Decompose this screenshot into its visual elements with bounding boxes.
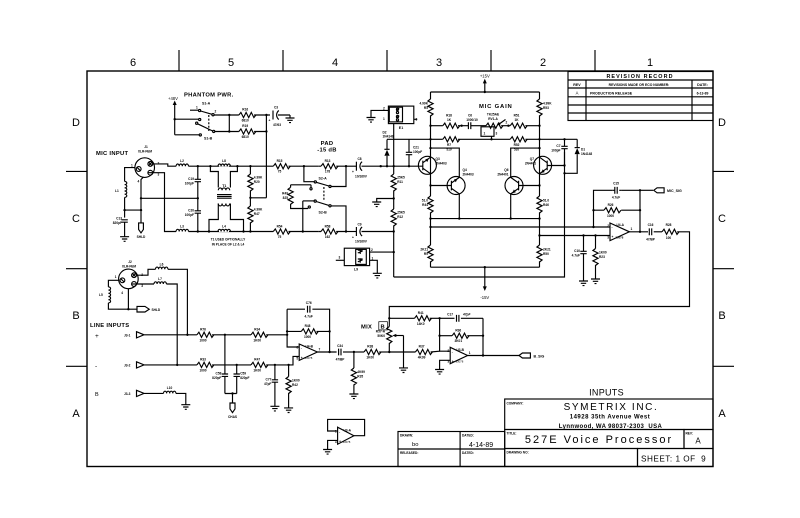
wire line+ bbox=[152, 334, 197, 336]
suppressor L9 bbox=[344, 248, 369, 265]
op-amp U3-A bbox=[338, 427, 354, 444]
svg-text:A: A bbox=[576, 91, 579, 96]
svg-text:47pF: 47pF bbox=[462, 313, 471, 317]
diode D1 1N4148 bbox=[576, 139, 578, 147]
svg-text:4.7uF: 4.7uF bbox=[305, 315, 313, 319]
svg-text:E1: E1 bbox=[399, 126, 403, 130]
resistor R7 bbox=[443, 137, 460, 142]
resistor R37 bbox=[389, 351, 415, 353]
svg-text:U4-B: U4-B bbox=[306, 345, 314, 349]
ground tap between R11/R12 bbox=[377, 199, 394, 203]
svg-text:1: 1 bbox=[115, 275, 117, 279]
svg-text:1N4148: 1N4148 bbox=[581, 152, 592, 156]
svg-text:D: D bbox=[72, 117, 80, 129]
zone tick top 3/2 bbox=[490, 50, 492, 71]
-15V supply arrow bbox=[484, 267, 486, 286]
svg-text:A: A bbox=[72, 408, 80, 420]
svg-text:+: + bbox=[301, 356, 303, 360]
svg-text:SHLD: SHLD bbox=[137, 235, 146, 239]
svg-text:6810: 6810 bbox=[242, 119, 249, 123]
wire pin2 to L2 bbox=[153, 164, 176, 166]
svg-text:6: 6 bbox=[296, 346, 298, 350]
svg-text:2: 2 bbox=[447, 349, 449, 353]
ground for C3 bbox=[286, 118, 295, 123]
wiper arrow bbox=[395, 335, 404, 337]
svg-text:R41: R41 bbox=[418, 311, 424, 315]
svg-text:2K21: 2K21 bbox=[420, 248, 428, 252]
svg-text:R34: R34 bbox=[254, 328, 260, 332]
U3-A spare section bbox=[323, 419, 365, 454]
svg-text:100: 100 bbox=[666, 236, 672, 240]
resistor R46 bbox=[537, 196, 542, 213]
svg-text:C76: C76 bbox=[306, 301, 312, 305]
wire to U4-A minus bbox=[431, 226, 611, 228]
svg-text:+48V: +48V bbox=[168, 96, 178, 101]
flag SHLD bbox=[137, 306, 149, 312]
shell wire bbox=[128, 289, 137, 310]
svg-text:U4-A: U4-A bbox=[617, 223, 625, 227]
svg-text:C19: C19 bbox=[188, 177, 194, 181]
op-amp U3-B bbox=[450, 347, 467, 363]
svg-text:1K: 1K bbox=[514, 118, 519, 122]
svg-text:33078: 33078 bbox=[305, 356, 313, 360]
svg-text:S1-A: S1-A bbox=[202, 102, 211, 106]
svg-text:SYMETRIX INC.: SYMETRIX INC. bbox=[564, 402, 659, 413]
svg-text:10/160V: 10/160V bbox=[355, 174, 368, 178]
svg-text:33078: 33078 bbox=[616, 236, 624, 240]
svg-text:REV: REV bbox=[573, 83, 581, 87]
svg-text:3: 3 bbox=[339, 256, 341, 260]
ground for C77 bbox=[270, 406, 279, 411]
svg-text:T1 USED OPTIONALLY: T1 USED OPTIONALLY bbox=[211, 238, 246, 242]
svg-text:4.99K: 4.99K bbox=[254, 176, 263, 180]
feedback right leg bbox=[482, 318, 484, 355]
svg-text:+: + bbox=[452, 359, 454, 363]
resistor R51 bbox=[510, 123, 527, 128]
svg-text:1K00: 1K00 bbox=[366, 356, 374, 360]
wire S1-A to R16 bbox=[214, 114, 239, 116]
svg-text:820pF: 820pF bbox=[113, 221, 122, 225]
wire line- bbox=[152, 364, 197, 366]
svg-text:100pF: 100pF bbox=[185, 213, 194, 217]
resistor R44 bbox=[428, 196, 433, 213]
svg-text:R23: R23 bbox=[599, 255, 605, 259]
svg-text:1: 1 bbox=[131, 164, 133, 168]
svg-text:R49: R49 bbox=[282, 192, 288, 196]
svg-text:IN PLACE OF L2 & L4: IN PLACE OF L2 & L4 bbox=[212, 242, 245, 246]
svg-text:R37: R37 bbox=[419, 345, 425, 349]
resistor R18 bbox=[443, 123, 460, 128]
svg-text:1K00: 1K00 bbox=[253, 368, 261, 372]
svg-text:DRAWING NO:: DRAWING NO: bbox=[507, 451, 529, 455]
resistor R20 bbox=[249, 166, 251, 174]
svg-text:COMPANY:: COMPANY: bbox=[507, 402, 524, 406]
resistor R54 bbox=[273, 229, 290, 234]
svg-text:DRAWN:: DRAWN: bbox=[400, 434, 413, 438]
plus to ground bbox=[328, 440, 338, 449]
svg-text:14928 35th Avenue West: 14928 35th Avenue West bbox=[570, 415, 650, 421]
wire E1 to bus bbox=[394, 119, 417, 166]
svg-text:R51: R51 bbox=[514, 114, 520, 118]
svg-text:L1: L1 bbox=[115, 189, 119, 193]
resistor R11 bbox=[393, 166, 395, 174]
ground for C10 bbox=[579, 281, 588, 286]
svg-text:1N4148: 1N4148 bbox=[383, 135, 394, 139]
svg-text:4K99: 4K99 bbox=[418, 356, 426, 360]
transistor Q6 2N4401 bbox=[519, 185, 540, 187]
svg-text:B_SIG: B_SIG bbox=[534, 354, 545, 358]
svg-text:-: - bbox=[612, 226, 613, 230]
svg-text:C13: C13 bbox=[116, 217, 122, 221]
resistor R41 bbox=[389, 317, 414, 319]
ground for E1 bbox=[371, 110, 388, 117]
flag MIC_SIG bbox=[640, 189, 653, 191]
svg-text:1: 1 bbox=[647, 57, 653, 69]
svg-text:bo: bo bbox=[412, 442, 418, 448]
svg-text:4-14-89: 4-14-89 bbox=[469, 442, 493, 449]
svg-text:1: 1 bbox=[631, 227, 633, 231]
svg-text:1000: 1000 bbox=[607, 214, 614, 218]
trimmer R57-A bbox=[388, 317, 390, 319]
zone tick right C/B bbox=[713, 268, 734, 270]
svg-text:4: 4 bbox=[138, 180, 140, 184]
capacitor C20 bbox=[197, 198, 199, 231]
switch S2-A bypass bbox=[304, 166, 314, 182]
svg-text:4.7uF: 4.7uF bbox=[572, 254, 580, 258]
svg-text:3K01: 3K01 bbox=[454, 339, 462, 343]
PAD section bbox=[282, 141, 394, 244]
svg-text:2N4401: 2N4401 bbox=[497, 173, 508, 177]
svg-text:47/63: 47/63 bbox=[273, 123, 281, 127]
gain row B bbox=[429, 138, 431, 140]
svg-text:10/160V: 10/160V bbox=[355, 240, 368, 244]
svg-text:C77: C77 bbox=[266, 378, 272, 382]
svg-text:B: B bbox=[95, 392, 99, 398]
svg-text:L5: L5 bbox=[99, 293, 103, 297]
svg-text:TK25AE: TK25AE bbox=[487, 113, 499, 117]
plus input to ground bbox=[440, 360, 451, 369]
svg-text:1K00: 1K00 bbox=[292, 379, 300, 383]
resistor R50 bbox=[537, 245, 542, 262]
svg-text:R42: R42 bbox=[292, 383, 298, 387]
svg-text:25K5: 25K5 bbox=[397, 211, 405, 215]
svg-text:B: B bbox=[72, 310, 79, 322]
svg-text:1000: 1000 bbox=[304, 335, 311, 339]
svg-text:R35: R35 bbox=[357, 375, 363, 379]
resistor R12 bbox=[391, 209, 396, 226]
svg-text:INPUTS: INPUTS bbox=[589, 388, 624, 398]
svg-text:MIC_SIG: MIC_SIG bbox=[667, 189, 682, 193]
resistor R53 bbox=[537, 99, 542, 116]
svg-text:2: 2 bbox=[607, 224, 609, 228]
svg-text:-15 dB: -15 dB bbox=[317, 148, 337, 154]
svg-text:L2: L2 bbox=[180, 159, 184, 163]
output wire bbox=[468, 355, 519, 357]
svg-text:Q6: Q6 bbox=[504, 168, 508, 172]
svg-text:R13: R13 bbox=[325, 159, 331, 163]
capacitor C76 bbox=[308, 306, 310, 313]
svg-text:162: 162 bbox=[325, 235, 331, 239]
mechanical link dashed bbox=[208, 115, 210, 131]
svg-text:C58: C58 bbox=[216, 372, 222, 376]
svg-text:R52: R52 bbox=[514, 143, 520, 147]
svg-text:+: + bbox=[612, 235, 614, 239]
resistor R13 bbox=[321, 164, 338, 169]
resistor R28 bbox=[662, 229, 679, 234]
svg-text:S2-A: S2-A bbox=[319, 177, 328, 181]
svg-text:D: D bbox=[718, 117, 726, 129]
node phantom feed bbox=[174, 118, 176, 120]
wire mic+ bus to Q3 base bbox=[381, 165, 420, 167]
svg-text:4.99K: 4.99K bbox=[419, 102, 428, 106]
svg-text:C59: C59 bbox=[240, 372, 246, 376]
svg-text:+: + bbox=[339, 440, 341, 444]
svg-text:R16: R16 bbox=[242, 108, 248, 112]
capacitor C19 bbox=[197, 166, 199, 198]
wire right leg bbox=[539, 92, 541, 267]
svg-text:CHAS: CHAS bbox=[228, 415, 237, 419]
svg-text:100pF: 100pF bbox=[413, 150, 422, 154]
wire bottom rail bbox=[431, 266, 540, 268]
ground for R35 bbox=[349, 394, 358, 399]
svg-text:PAD: PAD bbox=[321, 141, 334, 147]
svg-text:2N4403: 2N4403 bbox=[436, 162, 447, 166]
svg-text:A: A bbox=[718, 408, 726, 420]
resistor R33 bbox=[197, 362, 214, 367]
svg-text:J2: J2 bbox=[128, 260, 132, 264]
U4-B line amp bbox=[286, 301, 391, 399]
svg-text:TITLE:: TITLE: bbox=[507, 432, 517, 436]
wire mic- to L9 bbox=[393, 232, 395, 278]
svg-text:Q3: Q3 bbox=[436, 157, 440, 161]
resistor R26 bbox=[604, 208, 621, 213]
svg-text:100pF: 100pF bbox=[185, 182, 194, 186]
trimmer RV1-A bbox=[486, 123, 503, 128]
wire mic- return line bbox=[394, 152, 565, 277]
svg-text:XLR-FEM: XLR-FEM bbox=[138, 150, 153, 154]
svg-text:1000: 1000 bbox=[199, 368, 206, 372]
switch S1-B bbox=[196, 122, 198, 124]
transistor Q7 2N4401 bbox=[547, 165, 564, 167]
svg-text:+15V: +15V bbox=[480, 74, 490, 79]
svg-text:-: - bbox=[339, 430, 340, 434]
inductor L4 bbox=[219, 226, 229, 232]
svg-text:2N4403: 2N4403 bbox=[463, 173, 474, 177]
zone tick left D/C bbox=[66, 170, 87, 172]
svg-text:C: C bbox=[72, 213, 80, 225]
svg-text:5: 5 bbox=[228, 57, 234, 69]
jumper E1 bbox=[388, 106, 413, 124]
svg-text:L9: L9 bbox=[354, 268, 358, 272]
op-amp U4-A bbox=[610, 223, 629, 241]
node minus chain bbox=[440, 318, 451, 351]
transformer T1 bbox=[210, 166, 237, 187]
zone tick top 6/5 bbox=[178, 50, 180, 71]
gain row A bbox=[429, 125, 431, 127]
revision record table bbox=[568, 72, 713, 121]
svg-text:S2-B: S2-B bbox=[319, 211, 328, 215]
svg-text:-: - bbox=[452, 350, 453, 354]
wiper to ground bbox=[403, 336, 405, 368]
wire pin2 to L6 bbox=[136, 269, 155, 275]
inductor L3 bbox=[176, 229, 188, 231]
bus row B to D2/C21 left bbox=[387, 138, 431, 140]
wire mic- line bbox=[189, 231, 274, 233]
svg-text:1K00: 1K00 bbox=[599, 251, 607, 255]
svg-text:J3-2: J3-2 bbox=[124, 364, 131, 368]
svg-text:MIC INPUT: MIC INPUT bbox=[96, 151, 128, 157]
svg-text:L6: L6 bbox=[160, 262, 164, 266]
svg-text:33078: 33078 bbox=[456, 359, 464, 363]
svg-text:R20: R20 bbox=[254, 180, 260, 184]
svg-text:4: 4 bbox=[332, 57, 338, 69]
wire chassis tie bbox=[225, 394, 237, 404]
svg-text:-: - bbox=[95, 363, 97, 370]
ground for R23 bbox=[591, 279, 600, 284]
MIC GAIN section bbox=[387, 74, 610, 301]
svg-text:Q4: Q4 bbox=[463, 168, 467, 172]
svg-text:D1: D1 bbox=[581, 148, 585, 152]
bus row B to C7/D1 right bbox=[540, 138, 578, 140]
resistor R42 bbox=[288, 365, 290, 377]
svg-text:R36: R36 bbox=[455, 328, 461, 332]
svg-text:1000/10: 1000/10 bbox=[466, 118, 478, 122]
svg-text:75: 75 bbox=[278, 170, 282, 174]
svg-text:R53: R53 bbox=[543, 106, 549, 110]
svg-text:527E Voice Processor: 527E Voice Processor bbox=[525, 434, 673, 446]
wire to U4-A plus bbox=[540, 235, 611, 237]
svg-text:R33: R33 bbox=[200, 358, 206, 362]
svg-text:R50: R50 bbox=[543, 252, 549, 256]
svg-text:DATE:: DATE: bbox=[697, 83, 708, 87]
svg-text:R28: R28 bbox=[666, 223, 672, 227]
capacitor C59 bbox=[236, 365, 238, 394]
svg-text:XLR-FEM: XLR-FEM bbox=[122, 265, 137, 269]
svg-text:-15V: -15V bbox=[480, 295, 489, 300]
border frame bbox=[87, 71, 713, 467]
svg-text:C21: C21 bbox=[413, 146, 419, 150]
svg-text:U3-B: U3-B bbox=[457, 348, 465, 352]
svg-text:L8: L8 bbox=[222, 159, 226, 163]
capacitor C17 bbox=[440, 317, 455, 319]
svg-text:1K00: 1K00 bbox=[253, 338, 261, 342]
U3-B mix amp bbox=[389, 313, 544, 375]
transistor Q4 2N4403 bbox=[431, 185, 452, 187]
svg-text:820pF: 820pF bbox=[212, 376, 221, 380]
switch S2-B bypass bbox=[303, 200, 314, 202]
svg-text:R12: R12 bbox=[397, 215, 403, 219]
svg-text:L7: L7 bbox=[158, 277, 162, 281]
svg-text:C: C bbox=[718, 213, 726, 225]
LINE INPUTS section bbox=[90, 260, 300, 419]
zone tick left B/A bbox=[66, 365, 87, 367]
svg-text:MIC GAIN: MIC GAIN bbox=[479, 104, 513, 110]
svg-text:1: 1 bbox=[196, 106, 198, 110]
svg-text:REV:: REV: bbox=[686, 432, 693, 436]
resistor R9 bbox=[428, 245, 433, 262]
zone tick top 2/1 bbox=[594, 50, 596, 71]
svg-text:7: 7 bbox=[319, 347, 321, 351]
svg-text:178: 178 bbox=[325, 170, 331, 174]
resistor R47 bbox=[248, 206, 253, 223]
inductor L2 bbox=[176, 164, 188, 166]
wire mic sig to mix bbox=[389, 232, 689, 318]
svg-text:R47: R47 bbox=[254, 212, 260, 216]
input protection / bias bus bbox=[336, 106, 565, 278]
svg-text:2N4401: 2N4401 bbox=[525, 162, 536, 166]
flag SHLD bbox=[139, 223, 144, 233]
svg-text:C7: C7 bbox=[556, 144, 560, 148]
svg-text:C16: C16 bbox=[648, 223, 654, 227]
svg-text:R44: R44 bbox=[422, 203, 428, 207]
phantom feed joins divider bbox=[250, 197, 266, 199]
wire left leg bbox=[430, 92, 432, 267]
svg-text:R57-A: R57-A bbox=[376, 330, 386, 334]
svg-text:REVISION RECORD: REVISION RECORD bbox=[606, 74, 673, 80]
svg-text:LINE INPUTS: LINE INPUTS bbox=[90, 323, 129, 329]
svg-text:Lynnwood, WA 98037-2303 USA: Lynnwood, WA 98037-2303 USA bbox=[559, 424, 663, 430]
svg-text:33078: 33078 bbox=[343, 440, 351, 444]
resistor R47b bbox=[251, 362, 268, 367]
svg-text:U3-A: U3-A bbox=[344, 428, 352, 432]
svg-text:R9: R9 bbox=[424, 252, 428, 256]
MIX B trimmer bbox=[361, 311, 441, 373]
feedback wires bbox=[287, 309, 330, 352]
svg-text:3: 3 bbox=[607, 235, 609, 239]
svg-text:1: 1 bbox=[383, 117, 385, 121]
resistor R19 bbox=[239, 129, 256, 134]
resistor R49 bbox=[291, 185, 311, 188]
resistor R38 bbox=[354, 351, 364, 353]
capacitor C15 bbox=[615, 187, 617, 194]
wire pin3 to L7 bbox=[136, 283, 154, 285]
svg-text:100pF: 100pF bbox=[551, 149, 560, 153]
svg-text:R46: R46 bbox=[543, 203, 549, 207]
svg-text:47/BP: 47/BP bbox=[336, 358, 346, 362]
resistor R16 bbox=[239, 112, 256, 117]
svg-text:25K5: 25K5 bbox=[397, 176, 405, 180]
inductor L7 bbox=[154, 282, 166, 284]
svg-text:1000: 1000 bbox=[199, 338, 206, 342]
zone tick top 5/4 bbox=[282, 50, 284, 71]
svg-text:R54: R54 bbox=[277, 224, 283, 228]
svg-text:R48: R48 bbox=[305, 324, 311, 328]
svg-text:6-13-89: 6-13-89 bbox=[697, 92, 709, 96]
svg-text:C9: C9 bbox=[357, 222, 361, 226]
svg-text:2: 2 bbox=[215, 110, 217, 114]
svg-text:+: + bbox=[269, 119, 271, 123]
PHANTOM PWR section bbox=[168, 93, 295, 198]
resistor R52 bbox=[510, 137, 527, 142]
svg-text:C8: C8 bbox=[357, 157, 361, 161]
svg-text:R11: R11 bbox=[397, 180, 403, 184]
svg-text:+: + bbox=[95, 333, 99, 340]
capacitor C10 bbox=[583, 236, 585, 282]
svg-text:DATED:: DATED: bbox=[462, 434, 474, 438]
svg-text:51.0: 51.0 bbox=[543, 199, 549, 203]
wire phantom to S1 poles bbox=[175, 118, 199, 120]
svg-text:C17: C17 bbox=[447, 313, 453, 317]
svg-text:S1-B: S1-B bbox=[204, 137, 213, 141]
svg-text:6: 6 bbox=[130, 57, 136, 69]
svg-text:B: B bbox=[718, 310, 725, 322]
svg-text:2K21: 2K21 bbox=[543, 248, 551, 252]
svg-text:C6: C6 bbox=[468, 114, 472, 118]
svg-text:825: 825 bbox=[283, 196, 289, 200]
resistor R5 bbox=[428, 99, 433, 116]
resistor R36 bbox=[440, 335, 453, 337]
svg-text:820pF: 820pF bbox=[240, 376, 249, 380]
